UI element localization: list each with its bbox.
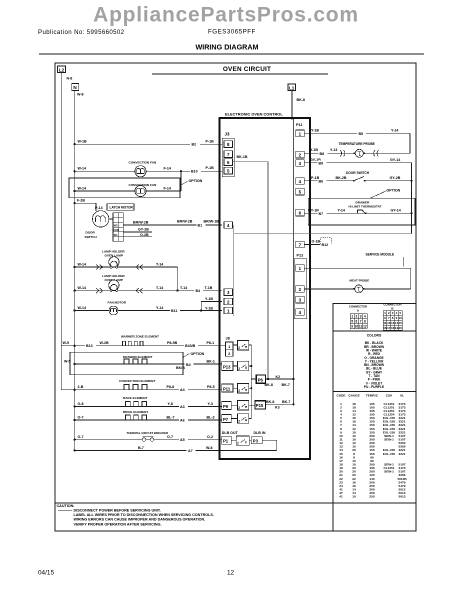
header rule xyxy=(39,53,424,55)
svg-text:BR/W-2B: BR/W-2B xyxy=(133,220,149,224)
svg-text:10: 10 xyxy=(352,495,356,499)
svg-text:BK-7: BK-7 xyxy=(282,383,290,387)
svg-text:P8-8: P8-8 xyxy=(167,385,175,389)
wire relay K1 output xyxy=(249,365,253,367)
svg-text:W-14: W-14 xyxy=(78,167,87,171)
svg-text:P1: P1 xyxy=(223,439,229,444)
wire temperature probe return xyxy=(304,142,410,157)
svg-text:Y-1B: Y-1B xyxy=(311,129,319,133)
pin J3-3 xyxy=(224,289,233,296)
svg-text:9: 9 xyxy=(351,324,353,328)
svg-text:PU - PURPLE: PU - PURPLE xyxy=(364,385,384,389)
bake element circuit xyxy=(74,396,222,409)
svg-text:B5: B5 xyxy=(359,132,364,136)
svg-text:GY-2B: GY-2B xyxy=(138,228,149,232)
sensor meat probe xyxy=(353,285,365,293)
svg-text:AppliancePartsPros.com: AppliancePartsPros.com xyxy=(93,4,359,27)
svg-text:SERVICE MODULE: SERVICE MODULE xyxy=(366,253,395,257)
svg-text:BK-1: BK-1 xyxy=(207,359,215,363)
svg-text:TEMPERATURE PROBE: TEMPERATURE PROBE xyxy=(339,142,375,146)
wire P1 to relay DLB xyxy=(231,439,236,441)
svg-text:THERMAL CIRCUIT BREAKER: THERMAL CIRCUIT BREAKER xyxy=(127,431,170,435)
option box drawer element xyxy=(64,352,222,375)
thermostat drawer hi-limit xyxy=(304,209,412,217)
pin P12-2 xyxy=(296,286,305,293)
heater drawer element xyxy=(121,359,152,364)
svg-text:N-8: N-8 xyxy=(67,77,73,81)
svg-text:B4: B4 xyxy=(196,289,201,293)
wire relay K6 output xyxy=(249,344,252,346)
pin P11-1 xyxy=(296,130,305,137)
svg-text:GY-14: GY-14 xyxy=(390,158,400,162)
svg-text:HI LIMIT THERMOSTAT: HI LIMIT THERMOSTAT xyxy=(349,205,382,209)
svg-text:12: 12 xyxy=(227,570,235,577)
svg-text:P8-1: P8-1 xyxy=(207,341,215,345)
svg-text:DLB OUT: DLB OUT xyxy=(222,431,239,435)
svg-text:BK-2B: BK-2B xyxy=(336,176,347,180)
svg-text:DLB IN: DLB IN xyxy=(254,431,266,435)
svg-text:2: 2 xyxy=(238,346,240,350)
svg-text:Publication No: 5995660502: Publication No: 5995660502 xyxy=(38,29,125,36)
svg-text:11: 11 xyxy=(359,324,363,328)
broil element circuit xyxy=(74,410,222,423)
svg-text:Y-3: Y-3 xyxy=(208,402,213,406)
svg-text:3321: 3321 xyxy=(399,452,406,456)
wire W-1B to J3 pin 8 xyxy=(74,140,222,147)
svg-text:1: 1 xyxy=(351,314,353,318)
option box convection fan 2 xyxy=(69,178,203,198)
svg-text:P15: P15 xyxy=(256,403,264,408)
svg-text:20: 20 xyxy=(399,326,403,330)
svg-text:EXL-150: EXL-150 xyxy=(383,452,395,456)
svg-text:2: 2 xyxy=(355,314,357,318)
thermal circuit breaker circuit xyxy=(74,431,222,442)
wire meat probe return xyxy=(304,278,411,289)
wire lamp join vertical xyxy=(176,267,178,292)
svg-text:SWITCH: SWITCH xyxy=(85,235,98,239)
svg-text:L1: L1 xyxy=(289,85,295,90)
svg-text:B6: B6 xyxy=(319,180,324,184)
pin J3-8 xyxy=(224,141,233,148)
wire trace J3-4 internal xyxy=(234,225,412,316)
svg-text:P-1B: P-1B xyxy=(206,166,215,170)
svg-text:B4: B4 xyxy=(186,363,191,367)
pin P11-6 xyxy=(296,209,305,216)
svg-text:F-14: F-14 xyxy=(164,167,171,171)
svg-text:B7: B7 xyxy=(319,212,324,216)
svg-text:SEW-1: SEW-1 xyxy=(384,438,394,442)
relay K3 contact xyxy=(238,401,249,411)
svg-text:B43/B: B43/B xyxy=(185,344,196,348)
svg-text:A5: A5 xyxy=(180,438,185,442)
connector P11 lower xyxy=(222,384,233,392)
wire P13 to relay K1 xyxy=(233,365,238,367)
wire relay K3 to P15 xyxy=(249,404,255,406)
pin J3-6 xyxy=(224,159,233,166)
svg-text:TEMP./C: TEMP./C xyxy=(366,393,379,397)
svg-text:J8: J8 xyxy=(226,337,230,341)
svg-text:O-2B: O-2B xyxy=(140,233,149,237)
svg-text:P12: P12 xyxy=(297,254,304,258)
svg-text:W-5: W-5 xyxy=(63,341,70,345)
svg-text:O-7: O-7 xyxy=(78,415,84,419)
wire option fan join xyxy=(180,170,182,191)
svg-text:5013: 5013 xyxy=(399,495,406,499)
svg-text:5: 5 xyxy=(351,319,353,323)
pin P12-1 xyxy=(296,265,305,272)
svg-text:A4: A4 xyxy=(180,388,185,392)
svg-text:P8-5: P8-5 xyxy=(207,385,215,389)
svg-text:P11: P11 xyxy=(223,386,231,391)
svg-text:2-B: 2-B xyxy=(78,385,84,389)
connector A table xyxy=(349,305,367,329)
connector P1 xyxy=(222,436,232,444)
pin P11-4 xyxy=(296,178,305,185)
svg-text:MEAT PROBE: MEAT PROBE xyxy=(350,278,370,282)
node L2 xyxy=(58,66,66,73)
svg-text:UL: UL xyxy=(400,393,404,397)
pin P11-7 xyxy=(296,241,305,248)
svg-text:Y-1B: Y-1B xyxy=(310,148,318,152)
svg-text:BR/W-2B: BR/W-2B xyxy=(177,219,193,223)
svg-text:FGES3065PFF: FGES3065PFF xyxy=(208,28,256,35)
svg-text:OPTION: OPTION xyxy=(387,189,401,193)
motor convection fan xyxy=(135,166,146,177)
svg-text:SEW-1: SEW-1 xyxy=(384,470,394,474)
svg-text:BL-7: BL-7 xyxy=(167,415,175,419)
pin J3-5 xyxy=(224,167,233,174)
svg-text:3: 3 xyxy=(360,314,362,318)
svg-text:B8: B8 xyxy=(320,152,325,156)
pin P11-2 xyxy=(296,151,305,158)
svg-text:T-14: T-14 xyxy=(156,286,163,290)
wire oven lamp 2 xyxy=(74,286,222,293)
svg-text:CAUTION:: CAUTION: xyxy=(57,504,75,508)
pin J3-1 xyxy=(224,307,233,314)
pin P12-4 xyxy=(296,309,305,316)
latch motor circuit xyxy=(74,199,135,211)
caution divider xyxy=(55,502,416,504)
svg-text:CODE: CODE xyxy=(337,393,346,397)
svg-text:OPTION: OPTION xyxy=(191,352,205,356)
svg-text:BROIL ELEMENT: BROIL ELEMENT xyxy=(123,410,148,414)
svg-text:12: 12 xyxy=(363,324,367,328)
wire O-2B stub xyxy=(123,233,152,237)
pin J3-2 xyxy=(224,298,233,305)
wire P6 output K2 xyxy=(251,375,294,387)
svg-text:NC: NC xyxy=(114,233,118,237)
svg-text:2: 2 xyxy=(238,420,240,424)
svg-text:O-7: O-7 xyxy=(167,435,173,439)
svg-text:CONVECTION ELEMENT: CONVECTION ELEMENT xyxy=(119,379,155,383)
svg-text:NO: NO xyxy=(114,223,118,227)
svg-text:2: 2 xyxy=(238,367,240,371)
svg-text:K3: K3 xyxy=(275,405,280,409)
wire L2 bus vertical xyxy=(60,73,62,390)
door switch connector strip xyxy=(113,213,123,242)
svg-text:WIRING DIAGRAM: WIRING DIAGRAM xyxy=(195,42,258,51)
svg-text:8: 8 xyxy=(364,319,366,323)
lamp oven lamp 2 xyxy=(109,280,119,292)
svg-text:DRAWER ELEMENT: DRAWER ELEMENT xyxy=(123,355,153,359)
svg-text:2: 2 xyxy=(228,352,230,356)
svg-text:A6: A6 xyxy=(180,418,185,422)
convection fan circuit xyxy=(74,161,222,174)
fan motor circuit xyxy=(74,300,222,313)
wire trace J3-6 internal xyxy=(233,162,269,379)
wire neutral bus vertical xyxy=(74,90,76,450)
heater bake element xyxy=(123,401,149,406)
pin P11-5 xyxy=(296,188,305,195)
svg-text:O-8: O-8 xyxy=(78,402,84,406)
svg-text:1: 1 xyxy=(228,345,230,349)
svg-text:ELECTRONIC OVEN CONTROL: ELECTRONIC OVEN CONTROL xyxy=(225,111,283,116)
wire service module feed xyxy=(304,253,411,289)
svg-text:O-1B: O-1B xyxy=(312,240,321,244)
svg-text:10: 10 xyxy=(355,324,359,328)
svg-text:4: 4 xyxy=(364,314,366,318)
svg-text:P7: P7 xyxy=(223,417,229,422)
wire relay DLB to P3 xyxy=(249,439,251,441)
connector J8 xyxy=(226,342,234,356)
svg-text:O-2: O-2 xyxy=(207,435,213,439)
svg-text:CONVECTION FAN: CONVECTION FAN xyxy=(129,161,157,165)
tables top edge xyxy=(333,302,416,304)
connector P9 xyxy=(222,402,232,410)
lamp holder 1 label xyxy=(102,249,125,257)
wire L1 trace inside control xyxy=(291,118,293,120)
svg-text:FAN MOTOR: FAN MOTOR xyxy=(108,300,127,304)
colors legend xyxy=(364,333,385,389)
svg-text:250: 250 xyxy=(369,495,374,499)
pin J3-7 xyxy=(224,151,233,158)
wire P9 to relay K3 xyxy=(231,404,237,406)
svg-text:OVEN CIRCUIT: OVEN CIRCUIT xyxy=(223,66,271,73)
svg-text:COM: COM xyxy=(113,229,119,232)
connector J3 strip outline xyxy=(222,138,234,177)
warmer zone element circuit xyxy=(61,335,225,349)
svg-text:BK-8: BK-8 xyxy=(297,98,305,102)
convection element circuit xyxy=(61,379,222,392)
svg-text:BAKE ELEMENT: BAKE ELEMENT xyxy=(123,396,148,400)
svg-text:W-5: W-5 xyxy=(64,359,71,363)
connector P7 xyxy=(222,415,232,423)
svg-text:COLORS: COLORS xyxy=(367,333,382,337)
svg-text:GY-2B: GY-2B xyxy=(390,176,401,180)
svg-text:DISCONNECT POWER BEFORE SERVIC: DISCONNECT POWER BEFORE SERVICING UNIT. xyxy=(74,509,161,513)
svg-text:Y-14: Y-14 xyxy=(156,306,163,310)
tables divider 2 xyxy=(333,391,416,393)
node L1 xyxy=(288,84,296,91)
relay DLB contact xyxy=(236,436,249,445)
relay K5 contact xyxy=(238,414,249,424)
svg-text:W-14: W-14 xyxy=(78,262,87,266)
svg-text:BK/B: BK/B xyxy=(176,366,185,370)
svg-text:P-1B: P-1B xyxy=(206,140,215,144)
svg-text:B1: B1 xyxy=(198,224,203,228)
svg-text:2: 2 xyxy=(238,389,240,393)
svg-text:P13: P13 xyxy=(223,364,231,369)
svg-text:P-14: P-14 xyxy=(95,206,103,210)
wire relay K4 output xyxy=(249,387,253,389)
motor fan xyxy=(109,306,118,315)
svg-text:Y-1B: Y-1B xyxy=(205,307,213,311)
svg-text:15: 15 xyxy=(399,321,403,325)
connector P6 xyxy=(256,375,265,383)
switch door switch xyxy=(304,171,412,183)
svg-text:41: 41 xyxy=(339,495,343,499)
svg-text:P9: P9 xyxy=(223,404,229,409)
wire fan motor branch to pin 2 xyxy=(200,297,222,312)
svg-text:L2: L2 xyxy=(59,67,65,72)
svg-text:T-14: T-14 xyxy=(180,286,187,290)
OVEN CIRCUIT underline xyxy=(152,73,328,75)
svg-text:W-8: W-8 xyxy=(77,93,84,97)
svg-text:B-7: B-7 xyxy=(138,446,144,450)
svg-text:CSA: CSA xyxy=(386,393,393,397)
svg-text:LATCH MOTOR: LATCH MOTOR xyxy=(110,205,134,209)
node N xyxy=(72,84,79,91)
connector P13 xyxy=(222,361,233,370)
svg-text:BL-3: BL-3 xyxy=(207,415,215,419)
wire GY-2B stub xyxy=(123,228,152,232)
heater warmer zone element xyxy=(121,341,144,346)
svg-text:2: 2 xyxy=(238,406,240,410)
svg-text:DOOR SWITCH: DOOR SWITCH xyxy=(346,171,370,175)
svg-text:WARMER ZONE ELEMENT: WARMER ZONE ELEMENT xyxy=(121,335,159,339)
svg-text:GY-14: GY-14 xyxy=(391,209,401,213)
wire P11 lower to relay K4 xyxy=(233,387,238,389)
wire L1 vertical into control xyxy=(291,91,293,119)
svg-text:P3: P3 xyxy=(253,438,259,443)
svg-text:B2: B2 xyxy=(192,143,197,147)
wire door switch feed xyxy=(304,158,411,234)
svg-text:P11: P11 xyxy=(296,123,303,127)
breaker thermal symbol xyxy=(142,437,153,441)
svg-text:O-7: O-7 xyxy=(78,435,84,439)
svg-text:W-8: W-8 xyxy=(206,446,213,450)
wire temperature probe feed xyxy=(304,129,410,154)
svg-text:F-2B: F-2B xyxy=(77,199,85,203)
wire oven lamp 1 xyxy=(74,262,178,269)
pin P11-3 xyxy=(296,160,305,167)
svg-text:BR/W-1B: BR/W-1B xyxy=(204,219,220,223)
svg-text:T-14: T-14 xyxy=(156,262,163,266)
svg-text:6: 6 xyxy=(355,319,357,323)
svg-text:W-14: W-14 xyxy=(78,306,87,310)
svg-text:OPTION: OPTION xyxy=(189,179,203,183)
motor latch xyxy=(93,211,114,227)
wire P15 output xyxy=(266,400,295,409)
wire gauge table xyxy=(337,393,408,498)
svg-text:7: 7 xyxy=(360,319,362,323)
motor convection fan 2 xyxy=(135,185,146,196)
connector P3 xyxy=(251,437,262,444)
svg-text:BK-8: BK-8 xyxy=(266,400,274,404)
tables divider 1 xyxy=(333,330,416,332)
wire relay K5 output xyxy=(249,418,252,420)
svg-text:T-1B: T-1B xyxy=(205,286,213,290)
svg-text:A3: A3 xyxy=(180,405,185,409)
svg-text:A7: A7 xyxy=(188,449,193,453)
lamp holder 2 label xyxy=(102,274,125,282)
caution text xyxy=(57,504,214,527)
svg-text:LABEL ALL WIRES PRIOR TO DISCO: LABEL ALL WIRES PRIOR TO DISCONNECTION W… xyxy=(74,513,214,517)
lamp oven lamp 1 xyxy=(109,257,119,269)
svg-text:Y-1B: Y-1B xyxy=(205,297,213,301)
wire BR/W-2B to J3 pin 4 xyxy=(123,219,221,227)
svg-text:04/15: 04/15 xyxy=(38,570,54,577)
relay K6 contact xyxy=(238,341,249,351)
svg-text:B10: B10 xyxy=(191,170,198,174)
svg-text:W-14: W-14 xyxy=(78,286,87,290)
svg-text:J3: J3 xyxy=(225,132,230,137)
connector P12 strip outline xyxy=(294,259,307,319)
svg-text:P6: P6 xyxy=(258,377,264,382)
svg-text:P8-9B: P8-9B xyxy=(167,341,178,345)
svg-text:Y-8: Y-8 xyxy=(168,402,173,406)
heater convection element xyxy=(121,385,149,390)
svg-text:F-14: F-14 xyxy=(164,186,171,190)
svg-text:K2: K2 xyxy=(276,375,281,379)
outer border frame xyxy=(55,63,416,531)
svg-text:Y-14: Y-14 xyxy=(338,209,345,213)
svg-text:W-2B: W-2B xyxy=(100,341,110,345)
connector B table xyxy=(383,303,402,331)
tables left divider xyxy=(332,303,334,531)
svg-text:2: 2 xyxy=(237,441,239,445)
svg-text:W-1B: W-1B xyxy=(78,140,88,144)
svg-text:BK-1B: BK-1B xyxy=(237,155,248,159)
door switch label xyxy=(85,231,98,239)
svg-text:B11: B11 xyxy=(171,309,177,313)
svg-text:WIRING ERRORS CAN CAUSE IMPROP: WIRING ERRORS CAN CAUSE IMPROPER AND DAN… xyxy=(74,518,206,522)
svg-text:Y-14: Y-14 xyxy=(330,148,337,152)
relay K1 contact xyxy=(238,361,249,371)
wire P7 to relay K5 xyxy=(231,418,237,420)
svg-text:B12: B12 xyxy=(322,243,329,247)
pin J3-4 xyxy=(224,222,233,229)
heater broil element xyxy=(123,415,149,420)
connector P15 xyxy=(255,401,266,409)
wire DLB return bottom xyxy=(74,440,277,453)
sensor temperature probe xyxy=(354,149,366,157)
svg-text:VERIFY PROPER OPERATION AFTER: VERIFY PROPER OPERATION AFTER SERVICING. xyxy=(74,522,162,526)
svg-text:BK-8: BK-8 xyxy=(265,383,273,387)
wire J8 to relay K6 xyxy=(233,344,238,346)
wire relay common vertical xyxy=(250,345,252,419)
svg-text:W-14: W-14 xyxy=(78,186,87,190)
relay K4 contact xyxy=(238,384,249,394)
op-amp U1 electronic oven control block xyxy=(220,111,311,459)
pin P12-3 xyxy=(296,296,305,303)
option box drawer thermostat xyxy=(308,189,415,225)
svg-text:Y-14: Y-14 xyxy=(391,129,398,133)
svg-text:B9: B9 xyxy=(319,161,324,165)
svg-text:BK-7: BK-7 xyxy=(282,400,290,404)
svg-text:10: 10 xyxy=(399,316,403,320)
wire P11-7 stub O-1B xyxy=(304,238,331,247)
svg-text:GAUGE: GAUGE xyxy=(348,393,359,397)
svg-text:B13: B13 xyxy=(86,344,93,348)
